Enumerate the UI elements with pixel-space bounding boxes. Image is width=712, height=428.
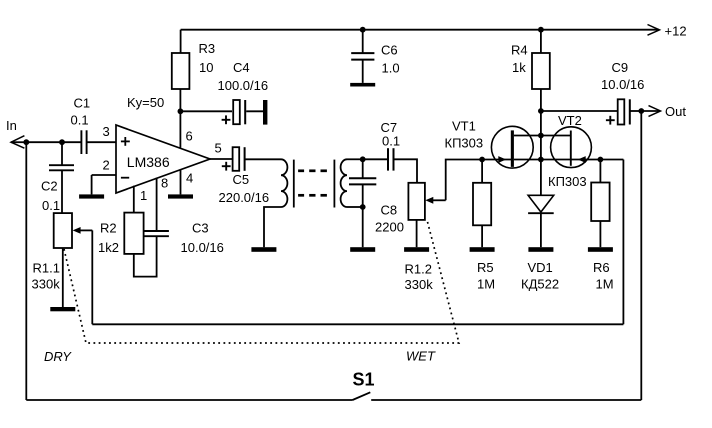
pin 2 minus sign [121,177,129,179]
transistor VT2 channel bar [570,131,572,166]
transistor VT1 circle [491,126,533,168]
wire long horizontal dry feed [92,323,623,325]
svg-text:КП303: КП303 [548,174,587,189]
ground (R1.2) [404,247,429,252]
svg-text:10: 10 [199,60,213,75]
VT2 drain line [541,135,570,137]
plus label C4 [222,115,231,124]
node dot Out [638,108,644,114]
svg-text:1k2: 1k2 [98,240,119,255]
spring link dashes bottom row [298,194,327,197]
transformer core bar right [333,160,335,208]
wire R1.1 bottom to ground [62,248,64,307]
svg-text:1k: 1k [512,60,526,75]
svg-text:2200: 2200 [375,220,404,235]
svg-text:2: 2 [103,158,110,173]
svg-text:DRY: DRY [44,349,72,364]
ground (C8 secondary) [350,247,375,252]
wire secondary bottom to node [347,206,363,208]
svg-text:10.0/16: 10.0/16 [601,77,644,92]
capacitor C9 (electrolytic) [618,99,642,124]
svg-text:220.0/16: 220.0/16 [219,190,270,205]
resistor R2 [124,213,143,254]
wire R1.1 wiper riser down [91,230,93,324]
svg-text:C1: C1 [74,96,91,111]
transformer secondary coil L2 [341,159,347,207]
svg-text:8: 8 [161,176,168,191]
VT1 source line [514,159,541,161]
resistor R5 [473,183,491,226]
svg-text:1M: 1M [477,277,495,292]
svg-text:WET: WET [406,349,436,364]
dotted gang link R1.1 to R1.2 [64,220,459,343]
svg-text:0.1: 0.1 [382,134,400,149]
node dot C6 rail [360,27,366,33]
gate arrow VT1 [498,156,506,163]
ground (primary) [251,247,276,252]
transformer core bar left [293,160,295,208]
ground (pin 4) [168,194,193,198]
wire R4 node to C9 [541,110,617,112]
node dot C8 top [360,156,366,162]
wire R3 bottom to node [179,89,181,111]
svg-text:C6: C6 [381,43,398,58]
svg-text:LM386: LM386 [127,154,170,170]
node +12 arrow [648,25,660,36]
wire primary bottom to ground [264,207,281,247]
svg-text:VD1: VD1 [528,260,553,275]
svg-text:R4: R4 [511,43,528,58]
ground (C4, vertical bar) [263,100,267,125]
svg-text:5: 5 [215,141,222,156]
wire R6 bottom to ground [599,221,601,247]
svg-text:R5: R5 [477,260,494,275]
svg-text:3: 3 [103,124,110,139]
capacitor C5 (electrolytic) [233,147,281,171]
ground (VD1) [528,247,553,252]
wire C2 branch down [61,142,63,165]
potentiometer R1.1 [54,213,72,248]
potentiometer R1.2 [408,183,425,220]
spring link dashes top row [298,169,327,172]
svg-text:R3: R3 [199,41,216,56]
wire C6 to ground [362,60,364,83]
svg-text:R2: R2 [100,221,117,236]
transistor VT1 channel bar [511,130,514,167]
VT1 drain line [514,135,541,137]
svg-text:4: 4 [186,171,193,186]
ground (R5) [470,247,495,252]
wire In node down left side [25,142,27,400]
wire pin 1 to R2 [133,186,135,213]
ground (R1.1) [50,307,75,311]
svg-text:100.0/16: 100.0/16 [218,78,269,93]
node dot drains [538,133,544,139]
node dot C2 branch [59,139,65,145]
svg-text:R1.2: R1.2 [405,262,432,277]
VT2 source line [541,159,570,161]
wire rail to R4 [540,30,542,53]
wire pin 4 to ground [180,169,182,194]
svg-text:10.0/16: 10.0/16 [181,240,224,255]
capacitor C4 (electrolytic) [233,100,263,124]
capacitor C3 [144,231,169,236]
node dot R5 gate [479,157,485,163]
wiper arrow R1.2 [425,197,445,204]
wire pin2 to ground [92,175,116,194]
node dot In [23,139,29,145]
node dot R3 bottom [178,108,184,114]
wire node to C4 [180,110,232,112]
svg-text:In: In [6,118,17,133]
wire C1 to pin3 [87,141,116,143]
node In (input terminal arrow) [11,136,26,149]
transistor VT2 circle [551,127,592,168]
svg-text:R6: R6 [593,260,610,275]
wire VT2 gate line [572,159,624,161]
svg-text:C3: C3 [192,221,209,236]
wire R3 top to rail [180,30,182,53]
wire center column R4 to VD1 [540,111,542,195]
plus label C9 [606,116,615,125]
node dot C8 bottom [360,204,366,210]
switch S1 lever [353,392,371,400]
wire C7 to R1.2 top [394,159,418,183]
transformer primary coil L1 [281,159,287,207]
diode VD1 [528,195,554,247]
capacitor C2 [49,165,74,170]
svg-text:VT2: VT2 [558,113,582,128]
switch S1 bottom wire right [371,399,641,401]
svg-text:КП303: КП303 [445,136,484,151]
capacitor C7 [388,148,394,170]
svg-text:Out: Out [665,104,686,119]
svg-text:0.1: 0.1 [42,198,60,213]
wire +12 rail [181,29,659,31]
wire R6 top [599,160,601,183]
node dot sources [538,157,544,163]
resistor R3 [172,53,190,89]
svg-text:330k: 330k [405,277,434,292]
svg-text:C5: C5 [233,172,250,187]
svg-text:КД522: КД522 [521,277,559,292]
svg-text:R1.1: R1.1 [33,261,60,276]
wire rail to C6 [362,30,364,53]
pin 3 plus sign [121,137,130,146]
ground (pin 2) [79,194,104,198]
svg-text:330k: 330k [32,277,61,292]
wire R5 bottom to ground [481,225,483,247]
svg-text:Ky=50: Ky=50 [127,95,164,110]
wire R4 bottom [540,89,542,111]
wire riser up to VT2 gate [622,160,624,325]
wire secondary top to node [347,158,363,160]
svg-text:6: 6 [186,129,193,144]
wire R2 bottom to C3 bottom [134,236,157,276]
node dot R4 bottom [538,108,544,114]
resistor R6 [591,183,609,222]
node Out arrow [641,106,660,117]
node dot R6 gate [598,157,604,163]
wire pin 5 output to C5 [210,158,232,160]
wiper arrow R1.1 [73,227,93,234]
svg-text:C9: C9 [612,60,629,75]
wire R1.2 bottom to ground [416,220,418,247]
plus label C5 [222,162,231,171]
capacitor C1 [81,130,86,154]
svg-text:C8: C8 [381,203,398,218]
wire node to C7 [363,158,388,160]
svg-text:1.0: 1.0 [382,61,400,76]
ground (R6) [588,247,613,252]
wire pin 6 [179,111,181,147]
capacitor C6 [351,53,374,60]
wire Out node down right side [640,111,642,400]
op-amp U1 LM386 triangle [116,125,210,193]
node dot R4 rail [538,27,544,33]
svg-text:+12: +12 [665,24,687,39]
wire R5 top [481,160,483,183]
svg-text:C4: C4 [233,60,250,75]
capacitor C8 [349,159,376,247]
wire pin 8 to C3 [156,178,158,231]
resistor R4 [532,53,550,89]
wire R1.2 wiper to VT1 gate [446,160,512,201]
switch S1 bottom wire left [26,399,352,401]
ground (C6) [350,83,375,87]
gate arrow VT2 [578,156,586,163]
svg-text:C2: C2 [41,179,58,194]
svg-text:1: 1 [140,188,147,203]
svg-text:VT1: VT1 [452,119,476,134]
svg-text:1M: 1M [596,277,614,292]
svg-text:0.1: 0.1 [71,113,89,128]
wire input row to C1 [26,141,81,143]
svg-text:S1: S1 [353,370,375,390]
wire C2 to R1.1 [61,170,63,213]
